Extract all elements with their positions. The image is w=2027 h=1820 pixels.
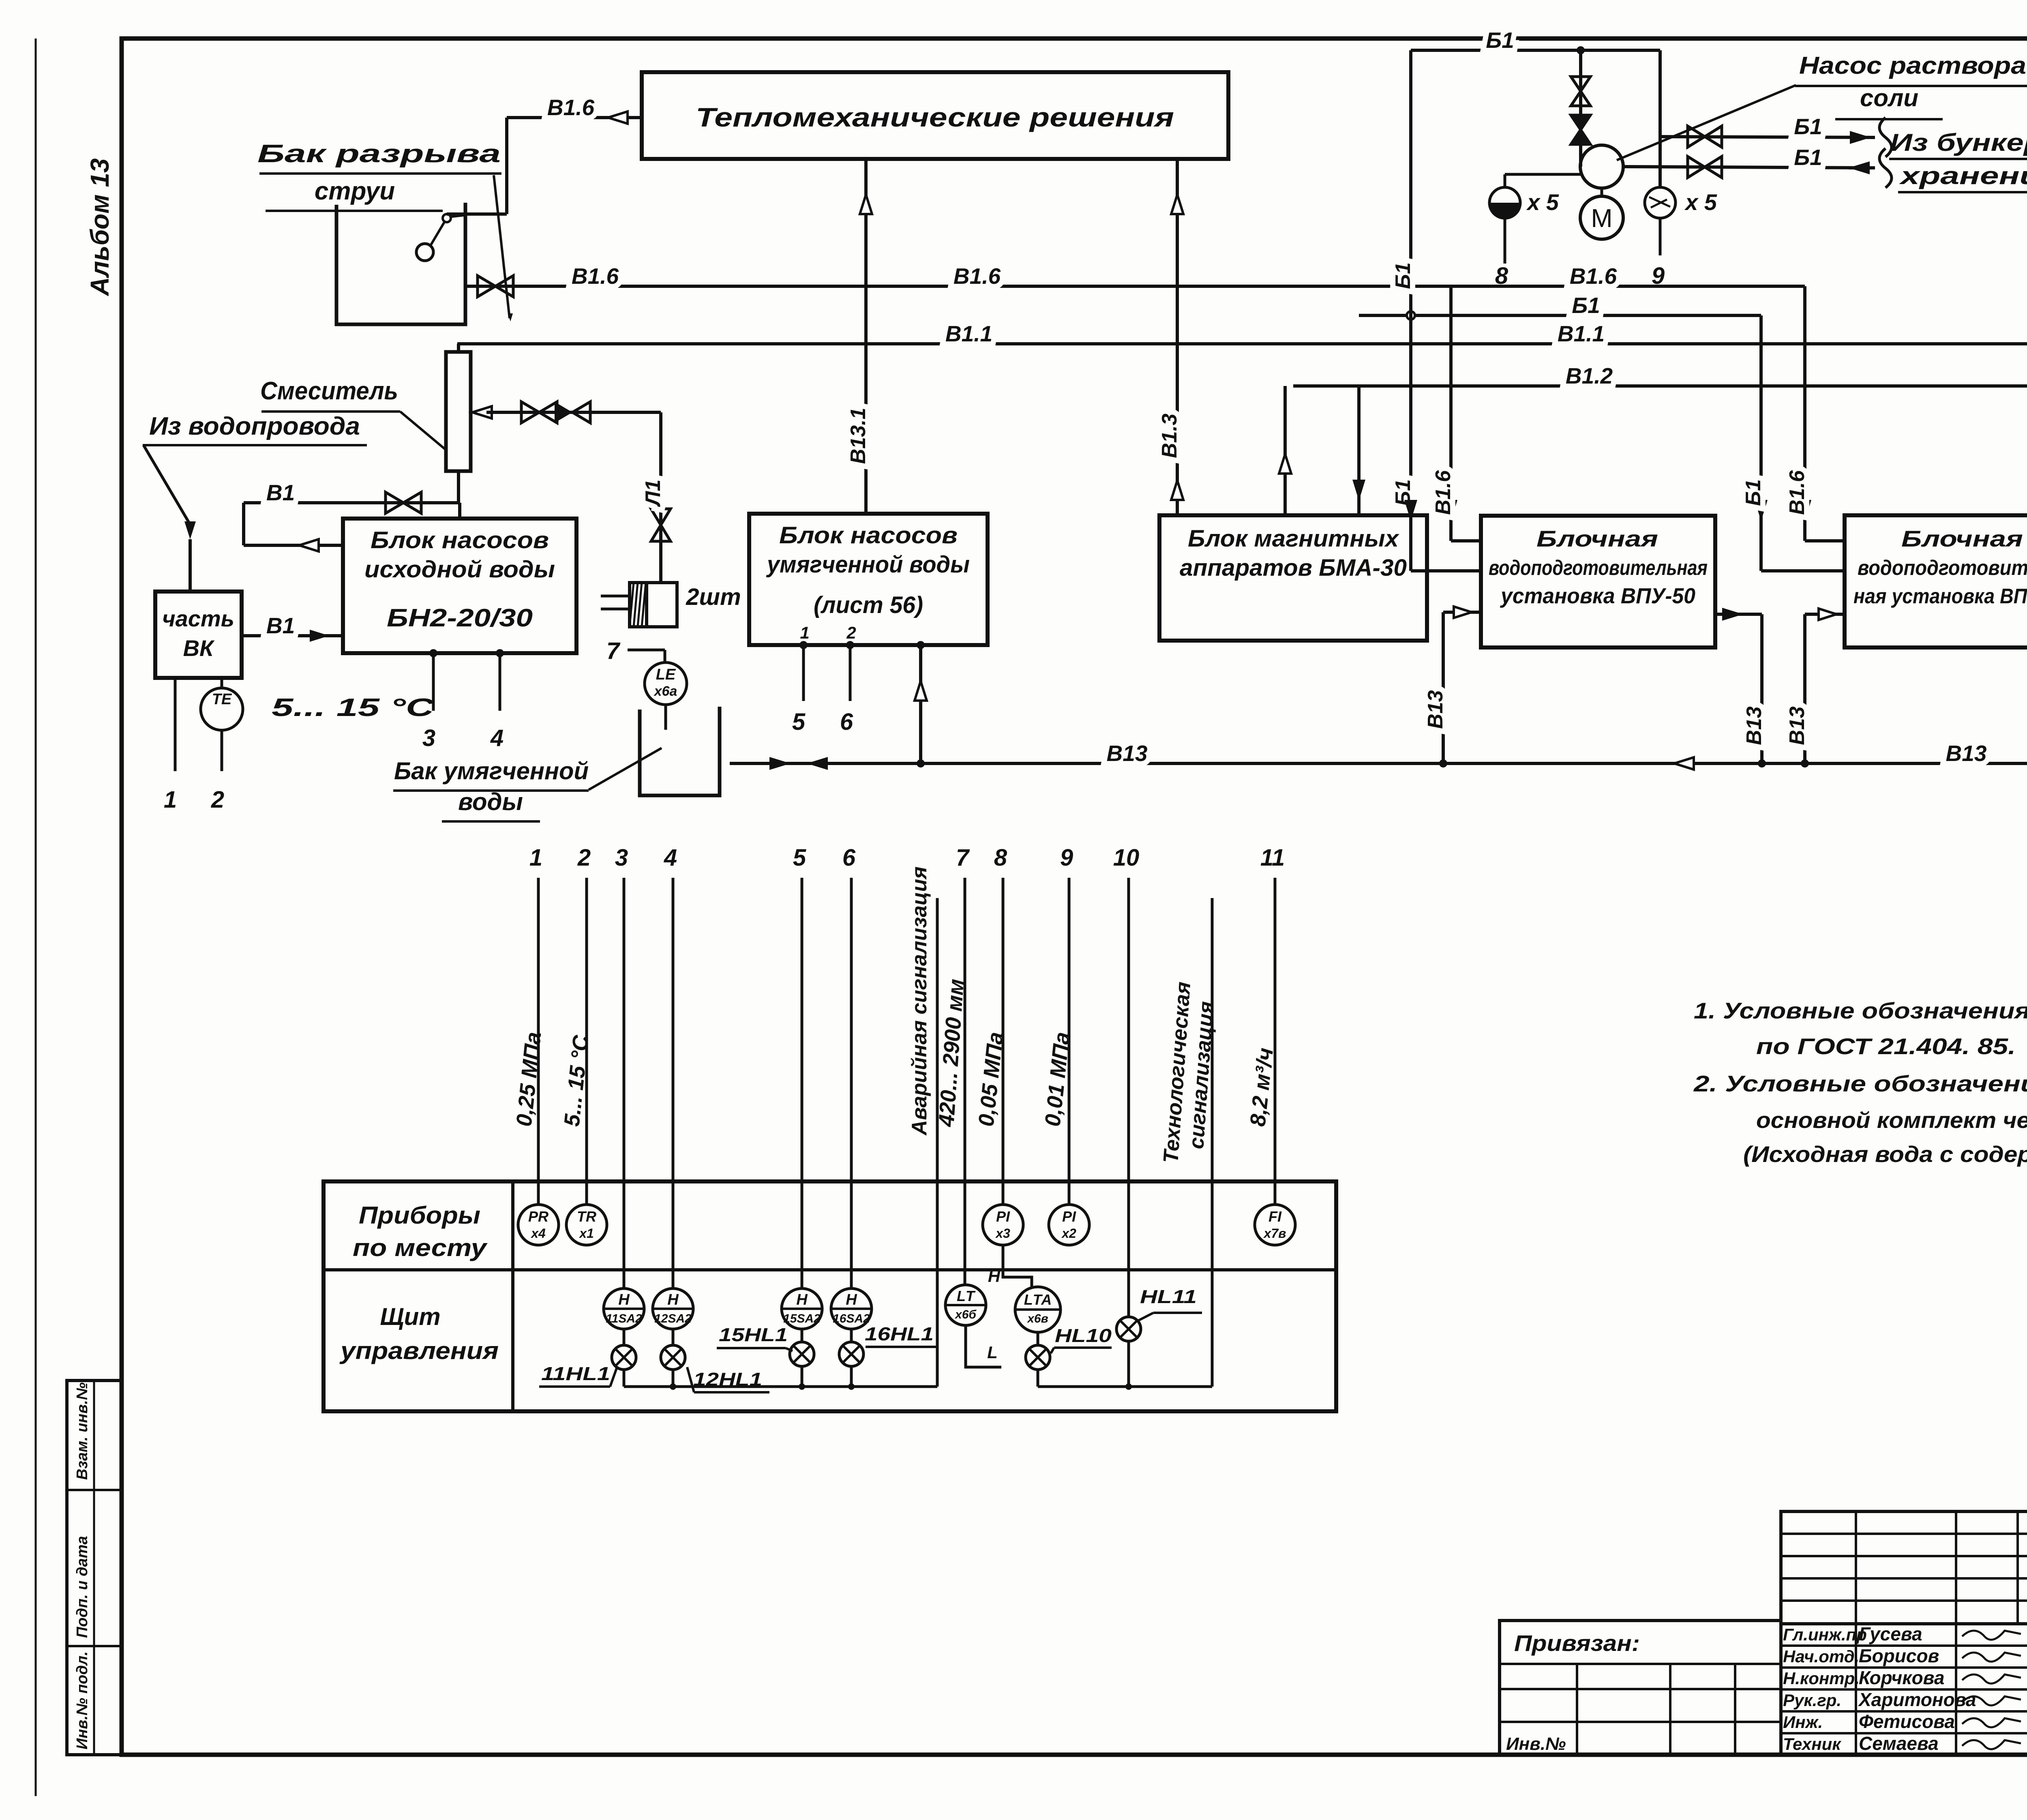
svg-text:15SА2: 15SА2 xyxy=(783,1312,821,1325)
svg-text:(Исходная вода с содержание: (Исходная вода с содержанием железа до 1… xyxy=(1743,1141,2027,1167)
svg-text:Подп. и дата: Подп. и дата xyxy=(74,1536,91,1638)
svg-text:Взам. инв.№: Взам. инв.№ xyxy=(74,1383,91,1480)
svg-text:Привязан:: Привязан: xyxy=(1514,1630,1640,1656)
lamp HL11 xyxy=(1116,1286,1202,1341)
svg-text:2: 2 xyxy=(577,845,591,871)
note line 4 xyxy=(1756,1107,2027,1133)
svg-text:11: 11 xyxy=(1260,845,1285,871)
signal line 4 xyxy=(664,845,677,1288)
svg-text:Б1: Б1 xyxy=(1572,293,1600,318)
box VPU-50 xyxy=(1481,516,1715,647)
svg-text:Блочная: Блочная xyxy=(1901,526,2023,551)
note line 5 xyxy=(1743,1141,2027,1167)
svg-text:В1.3: В1.3 xyxy=(1158,414,1181,458)
float valve xyxy=(416,214,465,261)
instrument x5 right xyxy=(1645,187,1717,289)
svg-text:Б1: Б1 xyxy=(1742,479,1765,506)
lamp 16HL1 xyxy=(839,1323,939,1366)
pin7 LE xyxy=(606,638,687,730)
row1 label xyxy=(353,1202,488,1261)
label iz vodoprovoda xyxy=(143,412,367,445)
lamp 11HL1 xyxy=(539,1329,636,1387)
svg-text:Из водопровода: Из водопровода xyxy=(149,412,360,440)
instrument PI x2 xyxy=(1049,1205,1089,1245)
svg-text:3: 3 xyxy=(422,725,435,751)
svg-text:Б1: Б1 xyxy=(1794,114,1822,139)
box2 V13 riser xyxy=(915,641,927,763)
margin label podp xyxy=(74,1536,91,1638)
svg-text:В1: В1 xyxy=(266,613,295,638)
svg-text:БН2-20/30: БН2-20/30 xyxy=(387,604,533,632)
svg-text:Аварийная сигнализация: Аварийная сигнализация xyxy=(908,866,931,1136)
svg-text:3: 3 xyxy=(615,845,628,871)
svg-text:х6в: х6в xyxy=(1026,1312,1048,1325)
svg-text:5: 5 xyxy=(793,845,806,871)
box1 top riser xyxy=(458,503,461,519)
svg-text:Тепломеханические решения: Тепломеханические решения xyxy=(696,102,1174,132)
label temperature xyxy=(272,694,435,722)
paper fold line left xyxy=(35,39,37,1796)
wire V1 lower return xyxy=(244,539,343,551)
svg-text:Л1: Л1 xyxy=(641,480,665,508)
note line 3 xyxy=(1693,1071,2027,1096)
svg-text:Н: Н xyxy=(796,1291,808,1308)
switch 15SA2 xyxy=(782,1288,822,1329)
lamp 15HL1 xyxy=(717,1324,814,1366)
svg-text:умягченной воды: умягченной воды xyxy=(766,551,970,578)
V1.6 drop to VPU50 xyxy=(1431,286,1481,541)
label break tank xyxy=(257,140,501,211)
B1 to bunker lower xyxy=(1623,145,1875,178)
svg-text:часть: часть xyxy=(162,606,234,631)
svg-text:HL10: HL10 xyxy=(1055,1325,1112,1346)
svg-text:Рук.гр.: Рук.гр. xyxy=(1783,1691,1841,1710)
svg-text:7: 7 xyxy=(606,638,621,664)
svg-text:Техник: Техник xyxy=(1783,1734,1841,1754)
bus B1 xyxy=(1359,293,1761,319)
svg-text:Н: Н xyxy=(988,1267,1001,1286)
svg-text:В1.6: В1.6 xyxy=(572,264,619,289)
svg-text:х6б: х6б xyxy=(954,1308,977,1321)
svg-text:РR: РR xyxy=(528,1208,549,1225)
label 0.01 MPa xyxy=(1040,1031,1074,1128)
svg-text:В1.6: В1.6 xyxy=(1570,264,1617,289)
svg-text:В1.6: В1.6 xyxy=(1431,470,1455,515)
svg-text:Инж.: Инж. xyxy=(1783,1713,1823,1732)
svg-text:LТ: LТ xyxy=(957,1288,976,1304)
svg-text:8: 8 xyxy=(994,845,1007,871)
svg-text:Гл.инж.пр: Гл.инж.пр xyxy=(1783,1625,1867,1644)
V1.6 corner to VPU5 xyxy=(1785,286,1845,541)
svg-text:Фетисова: Фетисова xyxy=(1859,1711,1955,1732)
svg-text:Борисов: Борисов xyxy=(1859,1645,1939,1666)
svg-text:по месту: по месту xyxy=(353,1234,488,1261)
pin 1 line xyxy=(164,678,177,813)
bus V1.2 xyxy=(1293,363,2027,388)
album label xyxy=(85,158,114,296)
svg-text:Бак умягченной: Бак умягченной xyxy=(394,757,589,785)
svg-text:LЕ: LЕ xyxy=(656,666,676,683)
svg-text:Инв.№ подл.: Инв.№ подл. xyxy=(74,1651,91,1749)
bus V1.1 xyxy=(457,321,2027,346)
svg-text:8: 8 xyxy=(1495,263,1508,289)
label 420-2900 xyxy=(934,978,969,1128)
box pumps source water xyxy=(343,519,576,653)
svg-text:В13: В13 xyxy=(1424,690,1447,729)
svg-text:х2: х2 xyxy=(1061,1226,1076,1241)
svg-text:РI: РI xyxy=(1062,1208,1076,1225)
svg-text:15HL1: 15HL1 xyxy=(719,1324,788,1345)
svg-text:Н.контр.: Н.контр. xyxy=(1783,1669,1860,1688)
svg-text:LТА: LТА xyxy=(1024,1291,1052,1308)
instrument TE xyxy=(201,678,243,813)
B1 top line xyxy=(1411,28,1660,54)
instrument LTA x6v xyxy=(1003,1244,1061,1332)
signer row 4 xyxy=(1783,1689,2021,1710)
leader break tank xyxy=(494,175,513,322)
VPU50 out V13 xyxy=(1715,608,1766,763)
svg-text:В13: В13 xyxy=(1107,741,1148,766)
svg-text:водоподготовитель-: водоподготовитель- xyxy=(1858,556,2027,580)
signal line 1 xyxy=(529,845,542,1205)
tech signal wire xyxy=(1159,898,1218,1387)
pin 3 xyxy=(422,649,437,751)
svg-text:2. Условные обозначения тру: 2. Условные обозначения трубопроводов см… xyxy=(1693,1071,2027,1096)
svg-text:ТЕ: ТЕ xyxy=(212,691,232,708)
svg-text:соли: соли xyxy=(1860,84,1918,111)
svg-text:Приборы: Приборы xyxy=(359,1202,480,1229)
svg-text:струи: струи xyxy=(315,177,395,205)
box3 V1.2 riser xyxy=(1279,386,1291,515)
bus V13 xyxy=(730,741,2027,770)
svg-text:Блок насосов: Блок насосов xyxy=(779,522,958,549)
inlet from waterline xyxy=(144,445,196,592)
signal line 9 xyxy=(1060,845,1073,1205)
svg-text:Щит: Щит xyxy=(380,1303,440,1330)
wire V13.1 xyxy=(846,159,872,514)
svg-text:х 5: х 5 xyxy=(1684,189,1717,215)
B1 drop to VPU5 xyxy=(1742,315,1845,571)
svg-text:Насос раствора: Насос раствора xyxy=(1799,52,2026,79)
svg-text:Н: Н xyxy=(667,1291,679,1308)
svg-text:Альбом 13: Альбом 13 xyxy=(85,158,114,296)
row2 label xyxy=(339,1303,499,1364)
svg-text:5... 15 °С: 5... 15 °С xyxy=(272,694,435,722)
mixer outlet valves xyxy=(472,402,661,423)
svg-text:В13: В13 xyxy=(1742,706,1766,745)
wire V1 VK to box1 xyxy=(242,613,343,642)
mixer xyxy=(446,344,471,471)
svg-text:водоподготовительная: водоподготовительная xyxy=(1489,556,1708,580)
svg-text:аппаратов БМА-30: аппаратов БМА-30 xyxy=(1180,555,1407,581)
svg-text:Блок магнитных: Блок магнитных xyxy=(1188,525,1400,552)
svg-text:ная установка ВПУ-5,0: ная установка ВПУ-5,0 xyxy=(1853,585,2027,608)
name table grid xyxy=(1781,1624,2027,1755)
label mixer xyxy=(260,377,445,449)
svg-text:10: 10 xyxy=(1113,845,1140,871)
label 0.25 MPa xyxy=(512,1031,546,1128)
svg-text:6: 6 xyxy=(840,709,853,735)
wire V1 upper xyxy=(244,471,459,545)
B1 to bunker upper xyxy=(1660,114,1875,147)
bunker brackets xyxy=(1879,118,1892,188)
svg-text:Корчкова: Корчкова xyxy=(1859,1667,1944,1688)
alarm signal wire xyxy=(908,866,937,1387)
instrument FI x7 xyxy=(1255,1205,1295,1245)
svg-text:Б1: Б1 xyxy=(1391,262,1415,289)
svg-text:1: 1 xyxy=(800,623,809,642)
label soft tank xyxy=(393,748,662,821)
box teplomech xyxy=(642,72,1228,159)
svg-text:5: 5 xyxy=(792,709,806,735)
svg-text:хранения соли: хранения соли xyxy=(1899,162,2027,189)
note line 2 xyxy=(1756,1033,2016,1059)
svg-text:х4: х4 xyxy=(530,1226,546,1241)
label 0.05 MPa xyxy=(974,1031,1008,1128)
svg-text:управления: управления xyxy=(339,1337,499,1364)
svg-text:9: 9 xyxy=(1060,845,1073,871)
svg-text:Из бункера мокрого: Из бункера мокрого xyxy=(1890,129,2027,156)
svg-text:В1: В1 xyxy=(266,480,295,505)
svg-text:11HL1: 11HL1 xyxy=(541,1363,610,1384)
signer row 5 xyxy=(1783,1711,2021,1732)
margin label vzam xyxy=(74,1383,91,1480)
svg-text:HL11: HL11 xyxy=(1140,1286,1197,1307)
bus V1.6 xyxy=(465,264,1805,289)
note line 1 xyxy=(1694,998,2027,1023)
B1 left vertical xyxy=(1391,50,1481,571)
float pipe to B1.6 xyxy=(447,95,642,214)
svg-text:11SА2: 11SА2 xyxy=(606,1312,642,1325)
svg-text:1. Условные обозначения при: 1. Условные обозначения приборов приняты xyxy=(1694,998,2027,1023)
margin stamp boxes xyxy=(67,1381,122,1755)
svg-text:Н: Н xyxy=(846,1291,857,1308)
svg-text:В1.6: В1.6 xyxy=(547,95,595,120)
svg-text:Инв.№: Инв.№ xyxy=(1506,1734,1566,1754)
svg-text:Гусева: Гусева xyxy=(1859,1623,1922,1644)
svg-text:х3: х3 xyxy=(995,1226,1010,1241)
pin 4 xyxy=(490,649,504,751)
svg-text:х 5: х 5 xyxy=(1526,189,1559,215)
svg-text:6: 6 xyxy=(842,845,856,871)
signer row 3 xyxy=(1783,1667,2021,1688)
svg-text:Нач.отд.: Нач.отд. xyxy=(1783,1647,1859,1666)
box chast VK xyxy=(155,592,242,678)
box BMA-30 xyxy=(1159,515,1427,641)
svg-text:2: 2 xyxy=(846,623,856,642)
V13 riser VPU5 xyxy=(1785,609,1845,763)
margin label inv xyxy=(74,1651,91,1749)
svg-text:установка ВПУ-50: установка ВПУ-50 xyxy=(1500,584,1695,608)
instrument table xyxy=(324,1181,1336,1411)
signal line 10 xyxy=(1113,845,1140,1317)
instrument PI x3 xyxy=(983,1205,1023,1245)
salt pump xyxy=(1580,145,1623,239)
signal line 3 xyxy=(615,845,628,1288)
valve on V1.6 at tank xyxy=(478,276,513,297)
box2 pin5 xyxy=(792,641,808,735)
pump suction xyxy=(1571,50,1590,167)
svg-text:РI: РI xyxy=(996,1208,1010,1225)
lamp bus xyxy=(624,1341,1212,1390)
svg-text:Н: Н xyxy=(618,1291,630,1308)
svg-text:4: 4 xyxy=(664,845,677,871)
svg-text:L: L xyxy=(987,1343,998,1362)
svg-text:воды: воды xyxy=(458,788,523,815)
svg-text:Харитонова: Харитонова xyxy=(1858,1689,1976,1710)
svg-text:В13: В13 xyxy=(1946,741,1987,766)
svg-text:х7в: х7в xyxy=(1263,1226,1286,1241)
label 8.2 m3/h xyxy=(1245,1047,1278,1128)
svg-text:1: 1 xyxy=(164,787,177,813)
instrument TR x1 xyxy=(566,1205,607,1245)
soft water tank xyxy=(640,707,720,795)
svg-text:х6а: х6а xyxy=(654,684,677,699)
switch 16SA2 xyxy=(831,1288,872,1329)
label 5..15 C xyxy=(559,1034,593,1128)
svg-text:ВК: ВК xyxy=(183,635,215,661)
svg-text:по ГОСТ 21.404. 85.: по ГОСТ 21.404. 85. xyxy=(1756,1033,2016,1059)
heat exchanger 2pcs xyxy=(601,583,741,627)
svg-text:2шт: 2шт xyxy=(686,584,741,610)
svg-text:(лист 56): (лист 56) xyxy=(814,592,923,618)
signal line 6 xyxy=(842,845,856,1288)
svg-text:9: 9 xyxy=(1652,263,1665,289)
svg-text:В1.1: В1.1 xyxy=(1558,321,1605,346)
svg-text:В1.6: В1.6 xyxy=(1785,470,1809,515)
signal line 2 xyxy=(577,845,591,1205)
svg-text:Бак разрыва: Бак разрыва xyxy=(257,140,501,168)
svg-text:ТR: ТR xyxy=(577,1208,596,1225)
svg-text:В1.6: В1.6 xyxy=(954,264,1001,289)
pipe L1 xyxy=(641,412,671,583)
title block small grid xyxy=(1781,1511,2027,1624)
signal line 5 xyxy=(793,845,806,1288)
svg-text:В1.1: В1.1 xyxy=(945,321,992,346)
svg-text:В13.1: В13.1 xyxy=(846,408,870,464)
box3 inlet xyxy=(1352,386,1365,515)
svg-text:Смеситель: Смеситель xyxy=(260,377,398,405)
signer row 2 xyxy=(1783,1645,2021,1666)
svg-text:2: 2 xyxy=(211,787,224,813)
B1 corner vertical xyxy=(1658,50,1662,187)
svg-text:1: 1 xyxy=(529,845,542,871)
svg-text:М: М xyxy=(1591,204,1612,233)
lamp HL10 xyxy=(1026,1325,1112,1370)
break tank xyxy=(336,203,465,324)
svg-text:7: 7 xyxy=(956,845,970,871)
switch 11SA2 xyxy=(604,1288,644,1329)
wire V1.3 xyxy=(1158,159,1183,515)
label from bunker xyxy=(1889,129,2027,192)
signer row 6 xyxy=(1783,1733,2021,1754)
signal line 7 xyxy=(956,845,970,1285)
svg-text:12SА2: 12SА2 xyxy=(654,1312,692,1325)
signer row 1 xyxy=(1783,1623,2021,1644)
label salt pump xyxy=(1617,52,2027,160)
svg-text:х1: х1 xyxy=(579,1226,594,1241)
svg-text:В1.2: В1.2 xyxy=(1566,363,1613,388)
svg-text:исходной воды: исходной воды xyxy=(364,556,555,583)
svg-text:FI: FI xyxy=(1268,1208,1282,1225)
switch 12SA2 xyxy=(653,1288,693,1329)
svg-text:Б1: Б1 xyxy=(1486,28,1514,53)
signal line 8 xyxy=(994,845,1007,1205)
box2 pin6 xyxy=(840,641,854,735)
svg-text:16HL1: 16HL1 xyxy=(865,1323,934,1344)
lamp 12HL1 xyxy=(661,1329,769,1392)
box pumps soft water xyxy=(749,514,988,645)
box VPU-5.0 xyxy=(1845,515,2027,647)
svg-text:Блок насосов: Блок насосов xyxy=(371,527,549,553)
motor M xyxy=(1591,204,1612,233)
svg-text:Б1: Б1 xyxy=(1794,145,1822,170)
instrument PR x4 xyxy=(518,1205,559,1245)
instrument LT x6b xyxy=(945,1267,1001,1367)
svg-text:4: 4 xyxy=(490,725,504,751)
svg-text:Семаева: Семаева xyxy=(1859,1733,1939,1754)
svg-text:основной комплект чертежей: основной комплект чертежей марки ВП альб… xyxy=(1756,1107,2027,1133)
privyazan box xyxy=(1500,1621,1781,1755)
V13 riser VPU50 xyxy=(1424,607,1481,767)
svg-text:В13: В13 xyxy=(1785,706,1809,745)
signal line 11 xyxy=(1260,845,1285,1205)
instrument x5 left xyxy=(1489,174,1582,289)
svg-text:Блочная: Блочная xyxy=(1536,526,1658,551)
